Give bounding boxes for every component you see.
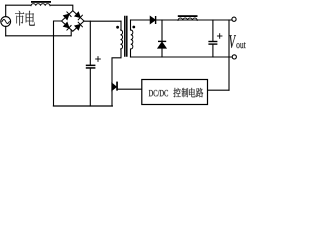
inductor L1 humps bbox=[31, 4, 50, 6]
DC/DC control box bbox=[142, 80, 208, 105]
wire top right segment bbox=[50, 5, 73, 11]
transformer T1 secondary lead top bbox=[130, 20, 132, 30]
text 控 (box label) bbox=[173, 88, 180, 97]
label Vout (out subscript) bbox=[236, 42, 245, 48]
secondary top rail to diode bbox=[131, 19, 151, 21]
bridge rectifier diamond bbox=[62, 11, 85, 32]
switch Q1 bbox=[112, 82, 118, 91]
bridge diode D4 (lower-right) bbox=[75, 22, 83, 30]
transformer T1 secondary dot bbox=[132, 26, 135, 29]
wire switch to ground rail bbox=[111, 90, 113, 106]
label DC/DC bbox=[149, 90, 168, 96]
secondary top rail after diode bbox=[156, 19, 232, 21]
wire left vertical top bbox=[5, 5, 7, 16]
ground rail (primary bottom) bbox=[54, 105, 113, 107]
transformer T1 primary lead top bbox=[120, 21, 122, 30]
wire bridge negative to ground rail bbox=[54, 21, 62, 106]
text 制 (box-zhi) bbox=[182, 88, 189, 97]
AC source (mains) bbox=[1, 17, 11, 27]
transformer T1 secondary winding bbox=[131, 30, 133, 49]
feedback wire to box bbox=[208, 89, 230, 91]
right vertical port line bbox=[228, 20, 230, 90]
inductor L2 humps bbox=[178, 18, 197, 20]
secondary bottom rail bbox=[131, 56, 233, 58]
output terminal bottom bbox=[232, 55, 236, 59]
C1 plus sign bbox=[96, 57, 101, 62]
bridge diode D1 (upper-left) bbox=[64, 12, 72, 20]
output terminal top bbox=[232, 17, 236, 21]
transformer T1 primary lead bottom bbox=[112, 49, 121, 84]
text 电 (label-dian1) bbox=[26, 11, 35, 26]
label Vout (V) bbox=[229, 35, 236, 48]
wire positive bus bbox=[84, 20, 121, 22]
wire top left segment bbox=[6, 4, 31, 6]
capacitor C2 bbox=[212, 20, 214, 41]
wire switch control to box bbox=[118, 88, 142, 90]
wire left vertical bottom bbox=[5, 26, 7, 35]
text 路 (box-lu) bbox=[196, 88, 203, 97]
diode D5 series bbox=[150, 16, 155, 23]
diode D6 freewheel bbox=[158, 41, 166, 42]
text 电 (box-dian2) bbox=[189, 88, 196, 97]
transformer T1 primary dot bbox=[116, 26, 119, 29]
bridge diode D3 (lower-left) bbox=[64, 23, 72, 31]
transformer T1 primary winding bbox=[121, 30, 123, 49]
capacitor C1 bbox=[89, 21, 91, 64]
text 市 (mains label) bbox=[15, 11, 24, 26]
inductor L2 bar bbox=[178, 15, 198, 17]
node wire down to shunt diode bbox=[161, 20, 163, 41]
inductor L1 bar bbox=[31, 1, 51, 3]
C2 plus sign bbox=[217, 34, 222, 39]
wire AC return bottom bbox=[6, 30, 72, 36]
transformer T1 secondary lead bottom bbox=[130, 49, 132, 57]
transformer T1 core bbox=[124, 17, 126, 57]
bridge diode D2 (upper-right) bbox=[75, 12, 83, 20]
